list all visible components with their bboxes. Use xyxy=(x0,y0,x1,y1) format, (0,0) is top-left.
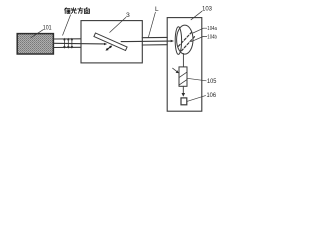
beam upper line (right gap) xyxy=(142,36,167,38)
leader line 104a xyxy=(193,28,207,33)
etalon surface 104b (dashed) xyxy=(182,36,196,51)
polarization arrows (three double-headed vertical arrows) xyxy=(63,38,73,49)
svg-text:104b: 104b xyxy=(207,34,217,40)
waveplate unit box xyxy=(81,21,142,63)
arrow from 105 to 106 xyxy=(182,86,184,93)
wire from disc to detector 105 xyxy=(182,53,184,67)
leader line 106 xyxy=(187,96,206,102)
photodetector 105 (hatched rect) xyxy=(179,67,187,86)
leader line 104b xyxy=(191,36,207,41)
beam lower line (right gap) xyxy=(142,44,167,46)
arrowhead of incident beam at waveplate xyxy=(104,43,107,45)
leader line 105 xyxy=(187,78,206,81)
beam axis line (incident) xyxy=(54,42,105,45)
waveplate 3 (tilted plate) xyxy=(94,33,127,51)
svg-text:103: 103 xyxy=(202,6,212,13)
component 106 (small square) xyxy=(181,98,187,105)
etalon disc rim xyxy=(175,27,181,55)
detector unit box 103 xyxy=(167,18,202,112)
beam axis line (exit, displaced) xyxy=(121,40,171,43)
leader line 103 xyxy=(191,11,202,20)
svg-text:105: 105 xyxy=(207,78,217,85)
polarization mark on waveplate (small tilted double arrow) xyxy=(106,46,113,51)
arrow into 105 xyxy=(173,68,177,71)
beam lower line (left gap) xyxy=(54,46,81,48)
beam upper line (left gap) xyxy=(54,38,81,40)
svg-text:101: 101 xyxy=(43,24,52,31)
laser source 101 (hatched box) xyxy=(17,34,53,54)
leader line for 偏光方向 xyxy=(63,15,71,36)
leader line L xyxy=(148,12,155,37)
svg-text:104a: 104a xyxy=(207,26,217,32)
leader line 101 xyxy=(31,30,43,38)
svg-text:106: 106 xyxy=(207,92,217,99)
etalon surface 104a (dashed) xyxy=(179,31,193,46)
etalon disc face xyxy=(177,25,193,54)
polarization label 偏光方向 (hand-drawn glyph strokes) xyxy=(65,7,90,13)
leader line 3 xyxy=(110,17,126,32)
svg-text:3: 3 xyxy=(126,12,130,19)
arrowhead of exit beam at etalon disc xyxy=(171,40,174,43)
